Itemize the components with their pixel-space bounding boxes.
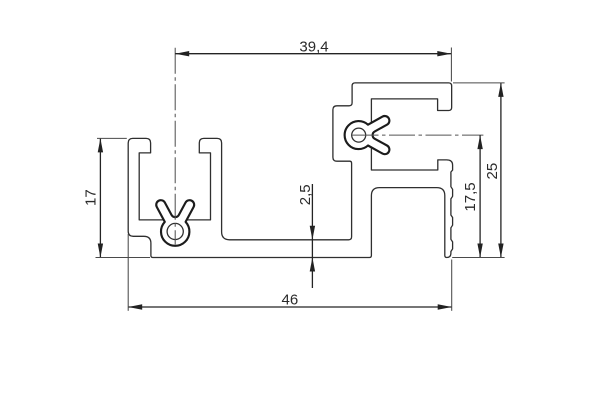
- dimension 46 extension line left: [127, 234, 129, 311]
- dimension 2,5 arrow down (tip at plate top): [310, 226, 315, 240]
- dimension 17 extension line bottom: [96, 257, 151, 259]
- dimension 39,4 arrow right: [437, 51, 451, 56]
- dimension 46 extension line right: [451, 260, 453, 311]
- screw port left inner circle: [167, 223, 183, 239]
- dimension 46 arrow left: [128, 304, 142, 309]
- svg-text:46: 46: [282, 292, 299, 309]
- svg-text:25: 25: [484, 163, 501, 180]
- dimension 25 extension line top: [453, 82, 505, 84]
- dimension 46 line: [128, 306, 452, 308]
- screw port right inner circle: [352, 128, 366, 142]
- dimension 46 arrow right: [438, 304, 452, 309]
- dimension 25 arrow down: [498, 244, 503, 258]
- dimension 25 arrow up: [498, 83, 503, 97]
- centerline horizontal through right screw port: [353, 134, 484, 136]
- dimension 17 extension line top: [97, 137, 127, 139]
- svg-text:17,5: 17,5: [462, 182, 479, 211]
- dimension 17 line: [99, 138, 101, 257]
- centerline vertical through left screw port: [174, 48, 176, 245]
- dimension 39,4 extension line right: [450, 48, 452, 82]
- dimension 25 line: [500, 83, 502, 258]
- svg-text:2,5: 2,5: [297, 184, 314, 205]
- profile outer contour (aluminium extrusion cross-section): [128, 83, 452, 258]
- dimension 17,5 line: [479, 135, 481, 257]
- dimension 17 arrow up: [98, 138, 103, 152]
- screw port right (circle with V wings opening right): [345, 116, 390, 154]
- dimension 17 arrow down: [98, 244, 103, 258]
- screw port left (circle with V wings opening up): [156, 200, 194, 246]
- dimension 17,5 arrow down: [477, 244, 482, 258]
- dimension 39,4 line: [175, 53, 451, 55]
- dimension 39,4 arrow left: [175, 51, 189, 56]
- svg-text:17: 17: [82, 189, 99, 206]
- svg-text:39,4: 39,4: [299, 38, 328, 55]
- dimension 2,5 arrow up (tip at plate bottom): [310, 258, 315, 272]
- dimension 25 / 17,5 shared extension line bottom: [452, 257, 504, 259]
- dimension 17,5 arrow up: [477, 135, 482, 149]
- dimension 2,5 line: [311, 184, 313, 288]
